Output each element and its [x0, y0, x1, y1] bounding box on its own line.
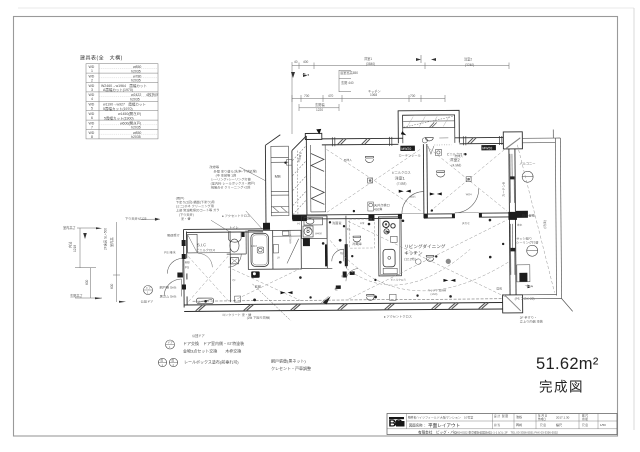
svg-text:MB: MB [275, 174, 281, 179]
svg-text:ドア: ドア [168, 341, 174, 345]
svg-text:黒ゴム Sets: 黒ゴム Sets [160, 294, 177, 299]
svg-text:尺 度: 尺 度 [540, 423, 546, 427]
svg-text:4: 4 [91, 97, 93, 101]
svg-text:下り天井h2125: 下り天井h2125 [125, 216, 147, 221]
svg-text:S.I.C: S.I.C [197, 242, 206, 247]
svg-text:岡崎: 岡崎 [516, 422, 522, 427]
svg-text:MW20: MW20 [482, 146, 492, 150]
svg-text:1220: 1220 [316, 108, 323, 112]
svg-text:雨: 雨 [161, 360, 164, 363]
svg-text:ビニルクロス: ビニルクロス [196, 247, 215, 252]
svg-text:h2035: h2035 [131, 79, 141, 83]
svg-text:塗・替: 塗・替 [181, 216, 191, 221]
svg-text:CL: CL [347, 227, 351, 231]
svg-text:物干金物: 物干金物 [522, 213, 536, 218]
svg-text:8: 8 [91, 135, 93, 139]
svg-text:WD4: WD4 [466, 192, 472, 196]
svg-text:スラブ下 支持材: スラブ下 支持材 [428, 288, 447, 292]
svg-text:洗濯: 洗濯 [306, 226, 312, 230]
svg-text:ドア: ドア [146, 286, 152, 290]
svg-text:● アクセントクロス: ● アクセントクロス [222, 213, 250, 218]
svg-text:作成日: 作成日 [538, 417, 546, 421]
svg-text:改修等: 改修等 [210, 164, 220, 169]
svg-text:網戸張替(黒ネット): 網戸張替(黒ネット) [271, 358, 306, 364]
svg-text:R冷: R冷 [360, 221, 365, 225]
svg-text:現場合せ クリーニング+2回: 現場合せ クリーニング+2回 [211, 184, 251, 189]
svg-text:バルコニー: バルコニー [520, 162, 536, 166]
svg-text:1068: 1068 [370, 93, 377, 97]
svg-text:郵便受け: 郵便受け [167, 232, 180, 237]
svg-text:クレセント・戸車調整: クレセント・戸車調整 [271, 365, 311, 371]
svg-text:冷蔵庫: 冷蔵庫 [352, 241, 362, 246]
svg-text:金物3点セット交換 木枠交換: 金物3点セット交換 木枠交換 [183, 348, 241, 354]
svg-text:完成図: 完成図 [539, 380, 584, 395]
svg-text:上部 常温乾燥20コート等 ガラ: 上部 常温乾燥20コート等 ガラ [176, 207, 220, 212]
svg-text:縮尺: 縮尺 [556, 422, 562, 427]
svg-text:(7.0帖): (7.0帖) [397, 181, 407, 186]
svg-text:2F床高 SL+500: 2F床高 SL+500 [103, 228, 108, 250]
svg-text:1/50: 1/50 [600, 423, 606, 427]
svg-text:1■↓: 1■↓ [385, 230, 391, 234]
svg-text:h2035: h2035 [131, 135, 141, 139]
svg-text:(2M 下廻り同様): (2M 下廻り同様) [247, 315, 270, 320]
svg-text:池谷: 池谷 [516, 414, 522, 419]
svg-text:470: 470 [328, 94, 334, 98]
svg-text:玄関 440: 玄関 440 [341, 80, 354, 85]
svg-text:3: 3 [91, 88, 93, 92]
svg-text:(P5 フカシ20): (P5 フカシ20) [515, 296, 535, 301]
svg-text:2017.1.30: 2017.1.30 [556, 415, 570, 419]
svg-text:MB: MB [185, 260, 190, 264]
svg-text:カーテンB: カーテンB [501, 182, 506, 197]
svg-text:5霞幅カット(1900): 5霞幅カット(1900) [104, 115, 134, 120]
svg-text:ドア交換 ドア室内側・ST特塗装: ドア交換 ドア室内側・ST特塗装 [183, 340, 244, 346]
svg-text:(内法): (内法) [542, 220, 547, 229]
svg-text:用 紙: 用 紙 [582, 417, 588, 421]
svg-text:40: 40 [294, 60, 298, 64]
svg-text:雨: 雨 [172, 360, 175, 363]
svg-text:室内高: 室内高 [109, 237, 114, 247]
svg-text:排水: 排水 [517, 223, 523, 227]
svg-text:洗面室: 洗面室 [332, 220, 342, 225]
svg-text:1218: 1218 [73, 245, 77, 252]
svg-text:洋室2: 洋室2 [464, 57, 472, 62]
svg-text:カーテンレール: カーテンレール [398, 153, 421, 158]
svg-text:製 図: 製 図 [502, 414, 508, 418]
svg-text:w1450(開き戸): w1450(開き戸) [118, 111, 141, 116]
svg-text:400: 400 [303, 60, 309, 64]
svg-text:立上り内側 塗装: 立上り内側 塗装 [520, 319, 544, 324]
svg-text:ハイツフィールド大阪マンション 10号室: ハイツフィールド大阪マンション 10号室 [416, 414, 473, 419]
svg-text:担 当: 担 当 [494, 423, 500, 427]
svg-text:● アクセントクロス: ● アクセントクロス [384, 314, 412, 319]
svg-text:WD5: WD5 [410, 195, 416, 199]
svg-text:尺 度: 尺 度 [582, 423, 588, 427]
svg-text:トイレ: トイレ [229, 226, 239, 230]
svg-text:洋室1: 洋室1 [395, 175, 406, 181]
svg-text:ビニルクロス: ビニルクロス [390, 278, 406, 282]
svg-text:A霞幅カット(1970): A霞幅カット(1970) [103, 87, 133, 92]
svg-text:浴室窓高650: 浴室窓高650 [340, 70, 358, 75]
svg-text:玄関: 玄関 [254, 284, 260, 289]
svg-text:600: 600 [110, 283, 114, 289]
svg-text:450角: 450角 [374, 206, 383, 211]
svg-text:1216: 1216 [251, 244, 257, 248]
svg-text:ビニルクロス: ビニルクロス [392, 170, 411, 175]
svg-text:キッチン: キッチン [368, 89, 381, 94]
svg-text:7: 7 [91, 125, 93, 129]
svg-text:W2460→w1964 霞幅カット: W2460→w1964 霞幅カット [101, 83, 147, 88]
svg-text:内法: 内法 [68, 242, 73, 248]
svg-text:w1190→w927 霞幅カット: w1190→w927 霞幅カット [103, 102, 146, 107]
svg-text:UB1216: UB1216 [288, 234, 292, 244]
svg-text:レールボックス塗布(前垂れ可): レールボックス塗布(前垂れ可) [184, 359, 239, 365]
svg-text:シーリング打替: シーリング打替 [516, 240, 539, 245]
svg-text:DS: DS [496, 286, 502, 291]
svg-text:公団ドア: 公団ドア [192, 333, 205, 338]
svg-text:51.62m²: 51.62m² [536, 355, 599, 373]
svg-text:CF: CF [232, 278, 236, 282]
svg-text:6: 6 [91, 116, 93, 120]
svg-text:5霞幅カット(1970): 5霞幅カット(1970) [103, 106, 133, 111]
svg-text:キッチン: キッチン [404, 251, 423, 256]
svg-text:w600(開き戸): w600(開き戸) [120, 120, 141, 125]
svg-text:2: 2 [91, 78, 93, 82]
svg-text:設 計: 設 計 [494, 414, 500, 418]
svg-text:(1/50): (1/50) [431, 292, 438, 296]
svg-text:h2035: h2035 [130, 98, 140, 102]
svg-text:〒160-0022 東京都新宿区新宿1-1-1 ビル 2F: 〒160-0022 東京都新宿区新宿1-1-1 ビル 2F TEL 03-335… [453, 430, 558, 434]
svg-text:網戸等 Sets: 網戸等 Sets [159, 285, 176, 290]
svg-text:MW20: MW20 [401, 147, 411, 151]
svg-text:PS 排水: PS 排水 [164, 250, 176, 255]
svg-text:h2035: h2035 [131, 126, 141, 130]
svg-text:600: 600 [85, 279, 89, 285]
svg-text:(3240): (3240) [465, 63, 474, 67]
svg-text:700: 700 [410, 94, 416, 98]
svg-text:5: 5 [91, 107, 93, 111]
svg-text:：: ： [424, 424, 427, 428]
svg-text:框: 框 [341, 274, 344, 278]
svg-text:W450: W450 [315, 231, 322, 235]
svg-text:玄関高さ: 玄関高さ [70, 293, 83, 298]
svg-text:CF: CF [340, 251, 344, 255]
svg-text:吊押入: 吊押入 [343, 158, 352, 162]
svg-text:洋室1: 洋室1 [364, 56, 372, 61]
svg-text:吊押入: 吊押入 [454, 154, 463, 158]
svg-text:(3840): (3840) [366, 62, 375, 66]
svg-text:(12.2帖): (12.2帖) [404, 256, 416, 261]
svg-text:建具表(全 大構): 建具表(全 大構) [80, 55, 123, 62]
svg-text:h2035: h2035 [131, 69, 141, 73]
svg-text:1: 1 [91, 69, 93, 73]
svg-text:戸: 戸 [277, 256, 280, 260]
svg-text:700: 700 [304, 94, 310, 98]
svg-text:平面レイアウト: 平面レイアウト [428, 422, 460, 429]
svg-text:玄関幅: 玄関幅 [315, 102, 325, 107]
svg-text:4枚折戸: 4枚折戸 [146, 92, 159, 97]
svg-text:図面名称: 図面名称 [409, 423, 423, 428]
svg-text:公団ドア: 公団ドア [141, 299, 154, 304]
svg-text:PS: PS [185, 265, 189, 269]
svg-text:(4.5帖): (4.5帖) [452, 162, 462, 167]
svg-text:室内高さ: 室内高さ [63, 225, 76, 230]
svg-text:天カセ: 天カセ [462, 221, 470, 225]
